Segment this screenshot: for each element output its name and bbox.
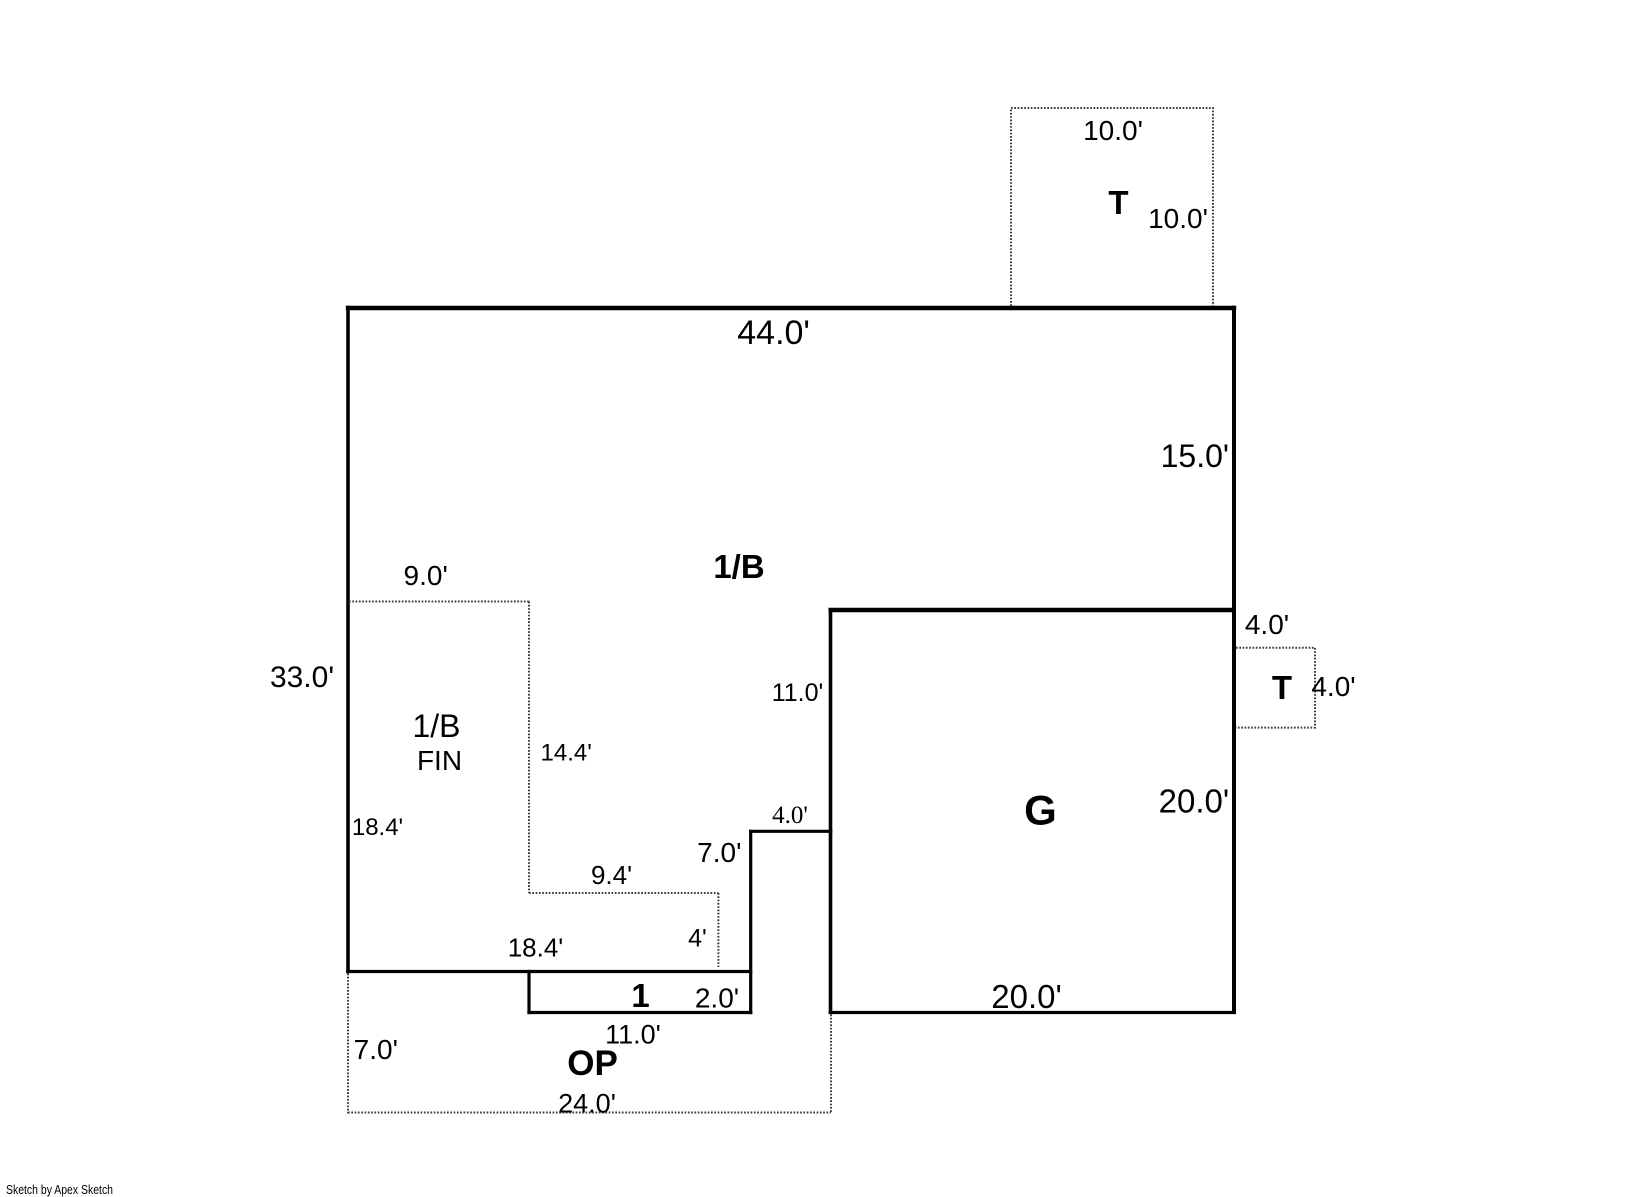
wall: step horizontal (4.0') [749, 830, 832, 833]
svg-text:9.4': 9.4' [591, 860, 632, 890]
wall: main left (33.0') [346, 306, 350, 973]
wall: main right (15.0' + 20.0') [1232, 306, 1236, 1014]
svg-text:10.0': 10.0' [1148, 203, 1208, 234]
svg-text:20.0': 20.0' [991, 978, 1062, 1015]
basement dotted: vertical (4') [717, 893, 719, 967]
wall: G left upper (11.0') [829, 608, 833, 833]
wall: G left lower [829, 830, 833, 1014]
wall: G bottom (20.0') [829, 1011, 1236, 1014]
open porch dotted: right [830, 1015, 832, 1113]
svg-text:20.0': 20.0' [1159, 783, 1230, 820]
open porch dotted: bottom (24.0') [348, 1112, 831, 1114]
svg-text:24.0': 24.0' [558, 1089, 616, 1119]
svg-text:T: T [1108, 184, 1128, 221]
wall: step vertical (7.0'+2.0') [749, 830, 752, 1014]
svg-text:7.0': 7.0' [697, 837, 741, 868]
svg-text:18.4': 18.4' [508, 933, 564, 963]
svg-text:4': 4' [688, 925, 707, 953]
svg-text:4.0': 4.0' [772, 802, 808, 829]
wall: story-1 bump bottom (11.0') [527, 1011, 752, 1014]
svg-text:14.4': 14.4' [541, 740, 592, 767]
svg-text:Sketch by Apex Sketch: Sketch by Apex Sketch [6, 1183, 113, 1197]
svg-text:OP: OP [567, 1044, 618, 1083]
T deck (top) dotted outline [1011, 108, 1213, 306]
svg-text:1/B: 1/B [412, 708, 460, 744]
basement dotted: vertical (14.4') [528, 602, 530, 894]
wall: story-1 bump left (2.0') [527, 970, 530, 1014]
svg-text:G: G [1024, 787, 1057, 834]
svg-text:T: T [1272, 669, 1292, 706]
svg-text:15.0': 15.0' [1161, 438, 1229, 474]
svg-text:33.0': 33.0' [270, 661, 334, 694]
wall: G top [829, 608, 1235, 612]
svg-text:11.0': 11.0' [772, 679, 824, 707]
basement finished area dotted: top (9.0') [349, 601, 529, 603]
svg-text:2.0': 2.0' [695, 983, 739, 1014]
T deck (right) dotted outline [1236, 648, 1315, 728]
svg-text:9.0': 9.0' [404, 560, 448, 591]
svg-text:4.0': 4.0' [1245, 609, 1289, 640]
svg-text:18.4': 18.4' [352, 814, 403, 841]
wall: main bottom (18.4' span) [346, 970, 752, 973]
svg-text:1/B: 1/B [713, 548, 764, 585]
svg-text:4.0': 4.0' [1311, 671, 1355, 702]
basement dotted: horizontal (9.4') [529, 892, 718, 894]
svg-text:7.0': 7.0' [354, 1034, 398, 1065]
wall: main top (44.0') [346, 306, 1236, 310]
svg-text:FIN: FIN [417, 745, 462, 776]
open porch dotted: left (7.0') [347, 974, 349, 1114]
svg-text:10.0': 10.0' [1083, 115, 1143, 146]
svg-text:1: 1 [631, 977, 649, 1014]
svg-text:44.0': 44.0' [737, 314, 810, 352]
